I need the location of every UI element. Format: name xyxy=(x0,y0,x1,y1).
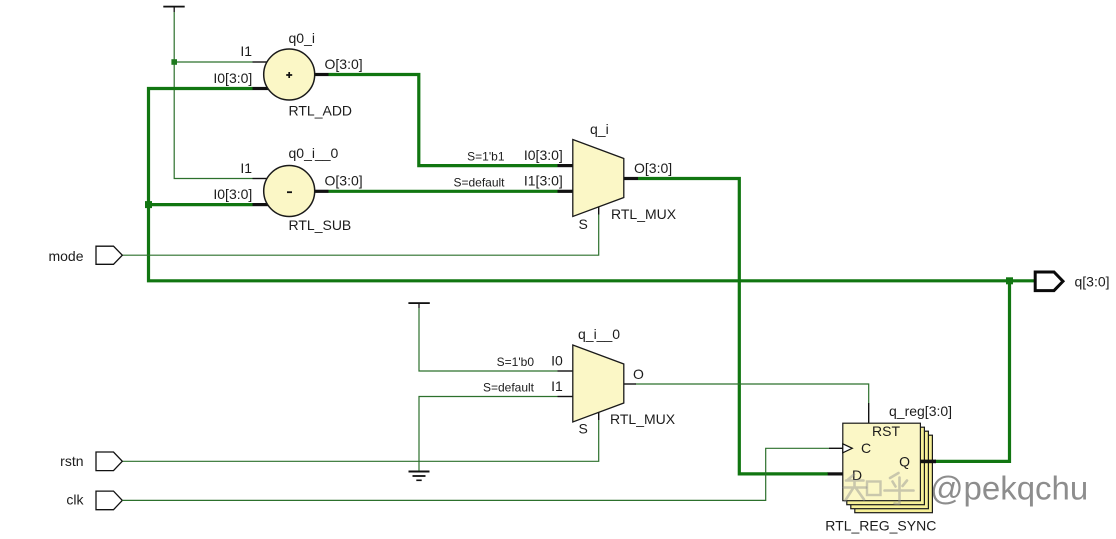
svg-text:S=1'b1: S=1'b1 xyxy=(467,150,505,164)
svg-text:@pekqchu: @pekqchu xyxy=(930,470,1088,507)
svg-text:RTL_MUX: RTL_MUX xyxy=(610,411,676,427)
svg-text:RST: RST xyxy=(872,423,900,439)
power symbol const1 (top) xyxy=(163,6,184,12)
wire: adder O[3:0] to mux1 I0[3:0] xyxy=(329,75,558,166)
mux U4 q_i__0 body xyxy=(573,345,624,422)
svg-text:rstn: rstn xyxy=(60,453,83,469)
adder pin stub O[3:0] xyxy=(315,73,329,76)
output port q[3:0] xyxy=(1035,272,1063,291)
wire: bus tap to sub I0 xyxy=(149,203,253,206)
mux U3 q_i body xyxy=(573,140,624,217)
mux2 S pin stub xyxy=(598,412,600,420)
svg-text:S=default: S=default xyxy=(483,381,535,395)
svg-text:C: C xyxy=(861,440,871,456)
register clock triangle xyxy=(843,444,853,453)
wire: mux1 S to mode port xyxy=(122,215,598,256)
svg-text:Q: Q xyxy=(899,453,910,469)
svg-text:RTL_MUX: RTL_MUX xyxy=(611,206,677,222)
sub U q0_i__0 pin stub I1 xyxy=(253,178,268,180)
svg-text:q0_i__0: q0_i__0 xyxy=(289,145,339,161)
register stack shadow layer 1 xyxy=(847,427,925,505)
register Q pin stub xyxy=(920,460,936,464)
mux1 pin stub I1[3:0] xyxy=(558,190,574,193)
svg-text:q_reg[3:0]: q_reg[3:0] xyxy=(889,403,952,419)
svg-text:S=1'b0: S=1'b0 xyxy=(497,355,535,369)
wire: const1 branch to adder I1 xyxy=(174,61,252,63)
wire: clk to register C xyxy=(122,448,829,500)
mode input port xyxy=(96,246,122,264)
mux1 S pin stub xyxy=(598,207,600,215)
ground symbol const0 xyxy=(409,472,430,481)
svg-text:clk: clk xyxy=(66,492,84,508)
wire: register Q feedback up to bus xyxy=(935,281,1010,462)
wire: mux2 O to register RST xyxy=(636,384,869,403)
register U5 q_reg body xyxy=(843,423,921,501)
svg-text:RTL_ADD: RTL_ADD xyxy=(289,103,353,119)
wire: gnd to mux2 I1 xyxy=(419,397,558,471)
svg-text:mode: mode xyxy=(48,248,83,264)
svg-text:S: S xyxy=(579,421,588,437)
sub pin stub O[3:0] xyxy=(315,190,329,193)
mux2 pin stub O xyxy=(624,383,636,385)
svg-text:q0_i: q0_i xyxy=(289,30,315,46)
svg-text:I0[3:0]: I0[3:0] xyxy=(213,70,252,86)
svg-text:q_i__0: q_i__0 xyxy=(578,326,620,342)
wire: const1 to mux2 I0 xyxy=(419,308,558,371)
svg-text:O[3:0]: O[3:0] xyxy=(325,56,363,72)
svg-text:I1: I1 xyxy=(240,160,252,176)
register stack shadow layer 2 xyxy=(851,431,929,509)
adder plus sign xyxy=(286,72,292,78)
svg-text:O: O xyxy=(633,366,644,382)
junction: Q feedback at bus xyxy=(1006,277,1013,284)
svg-text:S=default: S=default xyxy=(453,175,505,189)
junction: bus tap at sub I0 xyxy=(145,201,152,208)
subtractor U2 q0_i__0 body xyxy=(264,166,315,217)
mux2 pin stub I0 xyxy=(558,370,574,372)
svg-text:I0[3:0]: I0[3:0] xyxy=(213,186,252,202)
svg-text:O[3:0]: O[3:0] xyxy=(325,173,363,189)
mux1 pin stub O[3:0] xyxy=(624,177,638,180)
main bus wire: q feedback to adder/sub I0 and q[3:0] port xyxy=(149,89,1036,281)
clk input port xyxy=(96,491,122,510)
register D pin stub xyxy=(828,472,843,475)
mux2 pin stub I1 xyxy=(558,396,574,398)
adder U1 q0_i body xyxy=(264,49,315,100)
svg-text:I1[3:0]: I1[3:0] xyxy=(524,173,563,189)
junction: const1 branch xyxy=(171,59,177,65)
wire: const1 vertical down to sub I1 xyxy=(174,12,252,179)
svg-text:I0: I0 xyxy=(551,352,563,368)
register C pin stub xyxy=(829,447,843,449)
svg-text:I1: I1 xyxy=(240,43,252,59)
mux1 pin stub I0[3:0] xyxy=(558,164,574,167)
rstn input port xyxy=(96,452,122,471)
wire: mux2 S to rstn port xyxy=(122,420,598,461)
register RST pin stub xyxy=(868,403,870,423)
wire: mux1 O[3:0] to register D xyxy=(638,179,828,474)
sub pin stub I0[3:0] xyxy=(253,203,269,206)
adder pin stub I0[3:0] xyxy=(253,87,269,90)
svg-text:S: S xyxy=(579,216,588,232)
svg-text:q[3:0]: q[3:0] xyxy=(1075,274,1110,290)
svg-text:O[3:0]: O[3:0] xyxy=(634,160,672,176)
power symbol const1 (bottom) xyxy=(408,302,429,308)
sub minus sign xyxy=(287,191,292,193)
svg-text:I1: I1 xyxy=(551,378,563,394)
svg-text:q_i: q_i xyxy=(590,121,609,137)
adder U q0_i pin stub I1 xyxy=(253,61,268,63)
register stack shadow layer 3 xyxy=(855,435,933,513)
svg-text:I0[3:0]: I0[3:0] xyxy=(524,147,563,163)
wire: sub O[3:0] to mux1 I1[3:0] xyxy=(329,190,558,193)
svg-text:RTL_SUB: RTL_SUB xyxy=(289,217,352,233)
svg-text:RTL_REG_SYNC: RTL_REG_SYNC xyxy=(825,518,936,534)
watermark 知乎 glyph strokes xyxy=(844,473,914,504)
